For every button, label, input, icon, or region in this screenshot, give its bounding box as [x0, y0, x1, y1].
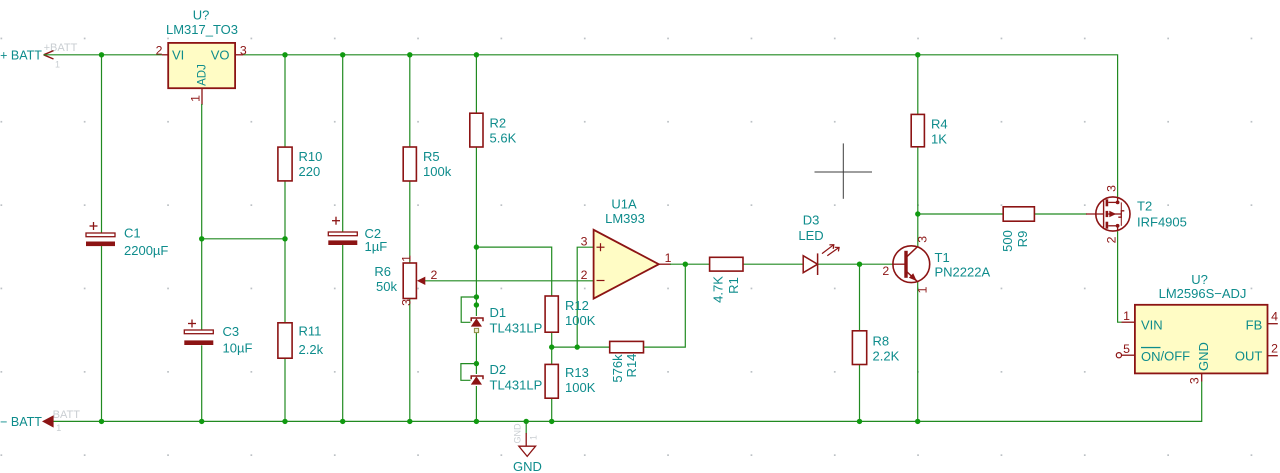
junction (917.8,54.8) — [915, 52, 920, 57]
transistor T1 PN2222A — [882, 236, 990, 294]
wire divider node to R14 — [552, 346, 610, 348]
svg-text:LM2596S−ADJ: LM2596S−ADJ — [1159, 286, 1247, 301]
svg-text:GND: GND — [1196, 342, 1211, 371]
svg-text:2: 2 — [1271, 342, 1278, 356]
svg-text:100K: 100K — [565, 380, 596, 395]
svg-text:TL431LP: TL431LP — [490, 378, 543, 393]
wire top rail from LM317 VO to T2 drain — [243, 55, 1118, 197]
svg-text:ADJ: ADJ — [197, 64, 209, 86]
resistor R4 1K — [911, 114, 947, 146]
wire LM317 ADJ down — [201, 88, 203, 239]
svg-text:FB: FB — [1246, 317, 1263, 332]
capacitor C2 1uF — [328, 217, 387, 254]
svg-text:R4: R4 — [931, 117, 948, 132]
resistor R11 2.2k — [278, 323, 324, 358]
svg-text:2.2k: 2.2k — [299, 342, 324, 357]
svg-text:R2: R2 — [490, 116, 507, 131]
svg-text:3: 3 — [581, 234, 588, 248]
svg-text:T1: T1 — [935, 250, 950, 265]
svg-text:2: 2 — [431, 268, 438, 282]
shunt reference D1 TL431LP — [461, 297, 542, 336]
svg-text:D3: D3 — [803, 213, 820, 228]
svg-text:2: 2 — [156, 44, 163, 58]
wire bottom ground rail — [53, 382, 1202, 422]
svg-text:1: 1 — [529, 435, 539, 440]
resistor R10 220 — [278, 147, 322, 181]
svg-text:R9: R9 — [1015, 231, 1030, 248]
svg-text:GND: GND — [513, 459, 542, 473]
wire R13 bottom to ground rail — [551, 398, 553, 421]
svg-text:C3: C3 — [223, 324, 240, 339]
junction (551.7,347.1) — [549, 344, 554, 349]
resistor R9 500 — [1000, 207, 1034, 252]
svg-text:1: 1 — [56, 423, 61, 433]
svg-text:VIN: VIN — [1141, 317, 1163, 332]
svg-text:U1A: U1A — [611, 197, 637, 212]
junction (409.8,54.8) — [407, 52, 412, 57]
svg-text:ON/OFF: ON/OFF — [1141, 348, 1190, 363]
wire R5/R6 column — [409, 55, 411, 422]
svg-text:+ BATT: + BATT — [0, 48, 42, 62]
junction (476.4,363.6) — [474, 361, 479, 366]
svg-text:OUT: OUT — [1235, 348, 1263, 363]
svg-text:BATT: BATT — [53, 409, 81, 421]
junction (476.4,297.0) — [474, 294, 479, 299]
svg-text:R1: R1 — [726, 277, 741, 294]
wire R10/R11 column — [284, 55, 286, 422]
svg-text:3: 3 — [915, 236, 929, 243]
svg-text:2.2K: 2.2K — [873, 349, 900, 364]
capacitor C3 10uF — [184, 320, 252, 356]
wire reference node to R12 top — [476, 247, 551, 296]
svg-text:R10: R10 — [299, 149, 323, 164]
resistor R5 100k — [403, 147, 451, 181]
capacitor C1 2200uF — [86, 222, 168, 258]
junction (201.7,238.8) — [199, 236, 204, 241]
wire C2 column — [342, 55, 344, 422]
svg-text:C1: C1 — [124, 226, 141, 241]
svg-text:D2: D2 — [490, 362, 507, 377]
junction (285,238.8) — [282, 236, 287, 241]
junction (101.5,54.8) — [99, 52, 104, 57]
wire T2 source to LM2596 VIN — [1118, 231, 1122, 322]
junction (917.8,214) — [915, 211, 920, 216]
svg-text:R5: R5 — [423, 149, 440, 164]
wire R6 wiper to U1A pin2 — [425, 280, 594, 282]
svg-text:5: 5 — [1123, 342, 1130, 356]
junction (476.4,54.8) — [474, 52, 479, 57]
wire R9 to T2 gate — [1034, 213, 1103, 215]
svg-text:500: 500 — [1000, 230, 1015, 252]
svg-text:10µF: 10µF — [223, 341, 253, 356]
svg-text:3: 3 — [1105, 185, 1119, 192]
svg-text:VI: VI — [172, 48, 184, 63]
svg-text:R12: R12 — [565, 298, 589, 313]
junction (476.4,305.0) — [474, 302, 479, 307]
wire R1 to D3 — [743, 263, 803, 265]
wire R4 column / T1 collector-emitter — [917, 55, 919, 422]
svg-text:GND: GND — [513, 423, 523, 444]
wire R12 bottom to R13 top — [551, 332, 553, 364]
svg-text:3: 3 — [1188, 377, 1202, 384]
wire R14 to output node — [644, 264, 686, 347]
svg-text:T2: T2 — [1137, 199, 1152, 214]
svg-text:1: 1 — [55, 59, 60, 69]
op-amp U1A LM393 — [581, 197, 672, 299]
resistor R13 100K — [545, 364, 596, 398]
svg-text:5.6K: 5.6K — [490, 131, 517, 146]
regulator U? LM317_TO3 — [156, 8, 247, 102]
junction (859.5,421.4) — [857, 419, 862, 424]
svg-text:LED: LED — [798, 228, 823, 243]
svg-text:576k: 576k — [610, 354, 625, 383]
svg-text:1µF: 1µF — [365, 239, 388, 254]
shunt reference D2 TL431LP — [461, 362, 542, 393]
wire +BATT to LM317 VI — [44, 54, 162, 56]
svg-text:2: 2 — [581, 268, 588, 282]
svg-text:U?: U? — [193, 8, 210, 23]
svg-text:1: 1 — [400, 255, 414, 262]
svg-text:D1: D1 — [490, 305, 507, 320]
svg-text:220: 220 — [299, 164, 321, 179]
svg-text:R8: R8 — [873, 334, 890, 349]
svg-text:LM317_TO3: LM317_TO3 — [166, 22, 238, 37]
wire ADJ node to R10/R11 node — [202, 238, 285, 240]
resistor R2 5.6K — [470, 113, 517, 147]
junction (476.4,421.4) — [474, 419, 479, 424]
svg-text:VO: VO — [211, 48, 230, 63]
port -BATT — [0, 409, 80, 433]
svg-text:2: 2 — [882, 264, 889, 278]
svg-text:100k: 100k — [423, 164, 452, 179]
junction (101.5,421.4) — [99, 419, 104, 424]
svg-text:R6: R6 — [374, 264, 391, 279]
svg-text:R13: R13 — [565, 365, 589, 380]
junction (285,421.4) — [282, 419, 287, 424]
ground symbol GND — [513, 421, 542, 473]
junction (342.7,54.8) — [340, 52, 345, 57]
svg-text:1: 1 — [665, 251, 672, 265]
junction (526.2,421.4) — [524, 419, 529, 424]
svg-text:R11: R11 — [299, 324, 322, 339]
svg-text:3: 3 — [240, 43, 247, 57]
cursor crosshair — [815, 143, 873, 198]
svg-text:TL431LP: TL431LP — [490, 321, 543, 336]
wire R8 column — [859, 264, 861, 421]
junction (859.5,264.2) — [857, 262, 862, 267]
potentiometer R6 50k — [374, 255, 437, 306]
LED D3 — [798, 213, 839, 276]
wire R2/D1/D2 column — [475, 55, 477, 422]
svg-text:1: 1 — [1123, 309, 1130, 323]
svg-text:1: 1 — [915, 286, 929, 293]
svg-text:1: 1 — [188, 95, 202, 102]
resistor R8 2.2K — [852, 331, 899, 365]
svg-text:2200µF: 2200µF — [124, 243, 168, 258]
svg-text:PN2222A: PN2222A — [935, 265, 991, 280]
junction (285,54.8) — [282, 52, 287, 57]
regulator U? LM2596S-ADJ — [1116, 272, 1278, 384]
wire C1 column — [101, 55, 103, 422]
wire C3 column — [201, 239, 203, 422]
resistor R12 100K — [545, 296, 596, 332]
wire R4 node to R9 — [918, 213, 1003, 215]
wire U1A output to R1 — [659, 263, 710, 265]
junction (551.7,421.4) — [549, 419, 554, 424]
resistor R1 4.7K — [710, 257, 743, 303]
junction (201.7,421.4) — [199, 419, 204, 424]
junction (577.2,347.1) — [575, 344, 580, 349]
svg-text:R14: R14 — [624, 354, 639, 378]
junction (917.7,421.4) — [915, 419, 920, 424]
svg-text:4.7K: 4.7K — [711, 276, 726, 303]
junction (409.8,421.4) — [407, 419, 412, 424]
port +BATT — [0, 42, 78, 69]
svg-text:100K: 100K — [565, 313, 596, 328]
svg-text:− BATT: − BATT — [0, 415, 42, 429]
svg-text:1K: 1K — [931, 132, 947, 147]
svg-text:50k: 50k — [376, 279, 397, 294]
svg-text:2: 2 — [1105, 236, 1119, 243]
junction (476.4,247.1) — [474, 244, 479, 249]
junction (342.7,421.4) — [340, 419, 345, 424]
svg-text:U?: U? — [1191, 272, 1208, 287]
svg-text:LM393: LM393 — [605, 211, 645, 226]
wire U1A pin3 to divider node — [577, 247, 593, 347]
svg-text:IRF4905: IRF4905 — [1137, 215, 1187, 230]
svg-text:4: 4 — [1271, 309, 1278, 323]
svg-text:3: 3 — [400, 299, 414, 306]
junction (685.3,264.2) — [683, 262, 688, 267]
wire D3 to T1 base — [818, 263, 906, 265]
resistor R14 576k — [610, 341, 644, 382]
MOSFET T2 IRF4905 — [1096, 185, 1187, 244]
